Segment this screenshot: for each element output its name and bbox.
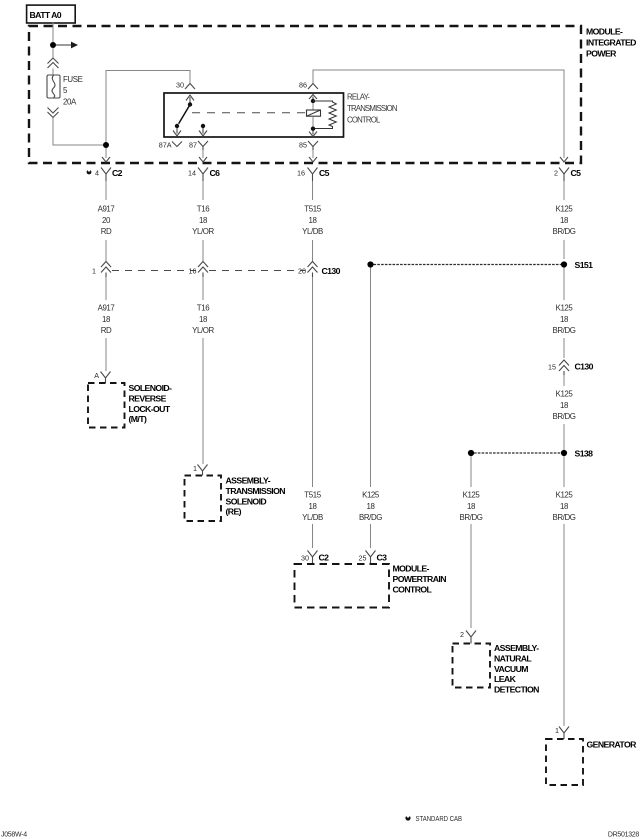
node junction at C2 feed [103, 142, 109, 148]
wire K125 18 BR/DG label (right, row 3) [553, 375, 576, 450]
svg-text:18: 18 [309, 502, 318, 511]
svg-text:BR/DG: BR/DG [460, 513, 483, 522]
relay RELAY-TRANSMISSION CONTROL box [164, 93, 344, 137]
svg-text:18: 18 [309, 216, 318, 225]
wire relay 87 to border [199, 150, 207, 162]
component pin A [94, 371, 110, 383]
svg-text:T16: T16 [197, 205, 210, 214]
node legend standard cab [405, 814, 462, 823]
svg-text:K125: K125 [556, 205, 574, 214]
svg-text:ASSEMBLY-: ASSEMBLY- [494, 643, 539, 653]
svg-text:18: 18 [560, 502, 569, 511]
svg-text:14: 14 [188, 169, 196, 178]
svg-text:18: 18 [199, 216, 208, 225]
wire K125 18 BR/DG label (row 4, col E) [460, 456, 483, 628]
svg-text:CONTROL: CONTROL [393, 585, 433, 595]
svg-text:15: 15 [548, 363, 556, 372]
svg-text:K125: K125 [463, 491, 481, 500]
svg-text:YL/OR: YL/OR [192, 326, 214, 335]
wire K125 18 BR/DG label (right, row 2) [553, 268, 576, 359]
svg-text:K125: K125 [362, 491, 380, 500]
relay pin 85 terminal [299, 141, 318, 151]
svg-text:K125: K125 [556, 390, 574, 399]
svg-text:CONTROL: CONTROL [347, 116, 381, 125]
component ASSEMBLY-NATURAL VACUUM LEAK DETECTION [453, 643, 540, 695]
svg-text:DETECTION: DETECTION [494, 685, 539, 695]
splice S151 [367, 260, 593, 270]
wire into fuse [52, 69, 54, 76]
node junction on battery feed [50, 42, 56, 48]
svg-text:YL/DB: YL/DB [302, 513, 323, 522]
connector C6 pin 14 [188, 168, 220, 182]
svg-text:NATURAL: NATURAL [494, 653, 532, 663]
relay coil top pin 86 arrow [309, 95, 317, 104]
svg-text:K125: K125 [556, 491, 574, 500]
svg-text:C3: C3 [377, 553, 388, 563]
wire relay 85 to border [309, 150, 317, 162]
wire branch arrow to right [56, 42, 78, 49]
svg-text:18: 18 [467, 502, 476, 511]
svg-text:A917: A917 [98, 304, 115, 313]
node double chevron down below fuse [48, 108, 59, 118]
svg-text:T515: T515 [304, 491, 321, 500]
connector C5 pin 16 [297, 168, 330, 182]
wire K125 18 BR/DG label (row 4, col F) [553, 456, 576, 726]
svg-text:POWER: POWER [586, 49, 617, 59]
relay pin 30 [176, 81, 195, 90]
svg-text:86: 86 [299, 81, 307, 90]
svg-text:1: 1 [92, 267, 96, 276]
svg-text:RD: RD [101, 227, 112, 236]
relay pin 86 [299, 81, 318, 90]
svg-text:20A: 20A [63, 98, 77, 107]
svg-text:87A: 87A [159, 141, 172, 150]
component SOLENOID-REVERSE LOCK-OUT (M/T) [88, 383, 172, 428]
svg-text:LOCK-OUT: LOCK-OUT [129, 404, 171, 414]
svg-text:C130: C130 [575, 362, 594, 372]
wire junction down to connector C2 with arrowhead [102, 148, 110, 162]
relay switch blade to 87A [179, 106, 190, 124]
svg-text:T16: T16 [197, 304, 210, 313]
wire K125 18 BR/DG label (row 4, col D) [359, 491, 382, 549]
component pin 2 (NVLD) [460, 630, 476, 644]
svg-text:GENERATOR: GENERATOR [587, 740, 638, 750]
svg-text:ASSEMBLY-: ASSEMBLY- [226, 476, 271, 486]
wire T16 18 YL/OR label (row 2) [192, 277, 214, 464]
relay switch common pin 30 arrow [186, 95, 194, 107]
wire fuse to lower junction [53, 118, 103, 146]
svg-text:(M/T): (M/T) [129, 414, 147, 424]
svg-text:K125: K125 [556, 304, 574, 313]
svg-text:LEAK: LEAK [494, 674, 517, 684]
svg-text:REVERSE: REVERSE [129, 393, 167, 403]
relay contact 87 [199, 124, 207, 136]
svg-text:TRANSMISSION: TRANSMISSION [226, 486, 286, 496]
svg-text:A917: A917 [98, 205, 115, 214]
svg-text:BR/DG: BR/DG [553, 227, 576, 236]
svg-text:30: 30 [176, 81, 184, 90]
wire A917 18 RD label (row 2) [98, 277, 115, 371]
svg-text:25: 25 [359, 554, 367, 563]
svg-text:J058W-4: J058W-4 [1, 831, 27, 838]
wire battery feed down from BATT A0 [52, 23, 54, 43]
svg-text:18: 18 [560, 216, 569, 225]
svg-text:RELAY-: RELAY- [347, 93, 370, 102]
wire relay 86 riser to C5 pin 2 feed [313, 70, 564, 158]
wire K125 18 BR/DG label (right) [553, 181, 576, 259]
svg-text:C2: C2 [112, 168, 123, 178]
svg-text:A: A [94, 371, 99, 380]
fuse FUSE 5 20A [47, 75, 83, 107]
svg-text:INTEGRATED: INTEGRATED [586, 38, 636, 48]
svg-text:YL/OR: YL/OR [192, 227, 214, 236]
connector C2 pin 30 (powertrain) [301, 551, 329, 565]
svg-text:SOLENOID-: SOLENOID- [129, 383, 173, 393]
svg-text:POWERTRAIN: POWERTRAIN [393, 574, 447, 584]
svg-text:16: 16 [189, 267, 197, 276]
relay coil element [307, 103, 321, 127]
relay label [347, 93, 397, 125]
svg-text:MODULE-: MODULE- [393, 564, 430, 574]
module Integrated Power boundary (dashed) [29, 26, 581, 163]
connector C130 in-line (pins 1,16,20) [92, 262, 341, 278]
connector C130 pin 15 (right) [548, 360, 594, 375]
svg-text:C5: C5 [319, 168, 330, 178]
relay pin 87A terminal [159, 141, 182, 150]
wire from C5/C130 column down (col C long run) [312, 277, 314, 487]
svg-text:BATT A0: BATT A0 [30, 10, 62, 20]
svg-text:18: 18 [367, 502, 376, 511]
wire from junction to fuse [52, 48, 54, 58]
svg-text:BR/DG: BR/DG [553, 513, 576, 522]
svg-text:C6: C6 [210, 168, 221, 178]
component pin 1 (transmission solenoid) [193, 464, 208, 476]
relay contact 87A [173, 124, 181, 136]
svg-text:YL/DB: YL/DB [302, 227, 323, 236]
svg-text:85: 85 [299, 141, 307, 150]
relay coil suppression resistor [313, 101, 336, 129]
relay pin 87 terminal [189, 141, 208, 151]
svg-text:18: 18 [102, 315, 111, 324]
wire T16 18 YL/OR label [192, 181, 214, 261]
svg-text:C130: C130 [322, 266, 341, 276]
relay coil bottom pin 85 [309, 127, 317, 137]
svg-text:BR/DG: BR/DG [553, 412, 576, 421]
svg-text:SOLENOID: SOLENOID [226, 496, 267, 506]
svg-text:2: 2 [460, 630, 464, 639]
svg-text:C5: C5 [571, 168, 582, 178]
svg-text:S151: S151 [575, 260, 594, 270]
svg-text:87: 87 [189, 141, 197, 150]
component MODULE-POWERTRAIN CONTROL [295, 564, 447, 608]
relay mechanical link dashed line [192, 112, 306, 114]
svg-text:T515: T515 [304, 205, 321, 214]
wire T515 18 YL/DB label [302, 181, 323, 261]
wire A917 20 RD label [98, 181, 115, 261]
svg-text:2: 2 [554, 169, 558, 178]
svg-text:C2: C2 [319, 553, 330, 563]
wire T515 18 YL/DB label (row 4, col C) [302, 491, 323, 549]
splice S138 [468, 449, 593, 459]
svg-text:BR/DG: BR/DG [553, 326, 576, 335]
component ASSEMBLY-TRANSMISSION SOLENOID (RE) [185, 476, 286, 522]
svg-text:4: 4 [95, 169, 99, 178]
svg-text:1: 1 [555, 726, 559, 735]
svg-text:DR501328: DR501328 [608, 831, 639, 838]
node BATT A0 [27, 5, 76, 23]
svg-text:TRANSMISSION: TRANSMISSION [347, 104, 397, 113]
svg-text:18: 18 [199, 315, 208, 324]
svg-text:16: 16 [297, 169, 305, 178]
component pin 1 (generator) [555, 726, 569, 739]
svg-text:VACUUM: VACUUM [494, 664, 528, 674]
svg-text:18: 18 [560, 401, 569, 410]
svg-text:FUSE: FUSE [63, 75, 83, 84]
svg-text:20: 20 [102, 216, 111, 225]
svg-text:20: 20 [298, 267, 306, 276]
node double chevron up (in-line connection) [48, 58, 59, 68]
svg-text:STANDARD CAB: STANDARD CAB [416, 814, 463, 823]
wire from S151 down to C3 [370, 268, 372, 488]
svg-text:MODULE-: MODULE- [586, 27, 623, 37]
connector C5 pin 2 (right) [554, 168, 581, 182]
svg-text:BR/DG: BR/DG [359, 513, 382, 522]
svg-text:RD: RD [101, 326, 112, 335]
connector C2 pin 4 [87, 168, 123, 182]
svg-text:1: 1 [193, 464, 197, 473]
svg-text:18: 18 [560, 315, 569, 324]
node MODULE-INTEGRATED POWER label [586, 27, 636, 59]
connector C3 pin 25 (powertrain) [359, 551, 388, 565]
svg-text:30: 30 [301, 554, 309, 563]
component GENERATOR [546, 739, 637, 785]
svg-text:S138: S138 [575, 449, 594, 459]
svg-text:(RE): (RE) [226, 507, 242, 517]
wire arrowhead into border at C5 right [560, 157, 568, 162]
wire riser from junction to relay pin 30 [106, 71, 190, 143]
